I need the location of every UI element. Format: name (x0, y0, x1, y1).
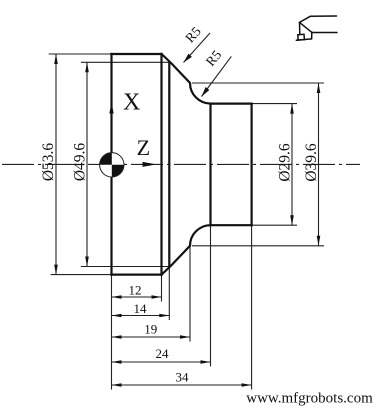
dimension line 12 (112, 296, 162, 298)
X axis arrowhead (109, 103, 113, 114)
arrow Ø53.6 top (54, 54, 58, 64)
tool nose left edge (299, 22, 301, 34)
flange top edge Ø53.6 (112, 53, 162, 55)
svg-text:19: 19 (144, 322, 157, 337)
extension line x=111.5 (z0) below part (111, 275, 113, 390)
z24 tangent line (209, 104, 211, 226)
arrow 24 right (201, 360, 211, 364)
svg-text:24: 24 (156, 346, 170, 361)
svg-text:Ø39.6: Ø39.6 (303, 143, 320, 182)
arrow Ø49.6 bottom (85, 257, 89, 267)
insert square (298, 34, 305, 40)
turning tool icon (296, 16, 337, 40)
part outline (112, 54, 252, 275)
extension line x=161.5 (z12) (161, 275, 163, 302)
arrow R5 leader 1 (184, 54, 192, 63)
tool shank top edge (300, 16, 337, 22)
right end face (251, 104, 253, 226)
arrow 19 right (180, 335, 190, 339)
svg-text:R5: R5 (203, 47, 225, 69)
z14 tangent line (168, 62, 170, 266)
extension line Ø53.6 top (49, 53, 112, 55)
cylinder Ø29.6 top edge (211, 102, 252, 104)
extension line Ø49.6 bottom (81, 266, 169, 268)
dimension line Ø53.6 (55, 54, 57, 275)
dimension line Ø39.6 (318, 83, 320, 246)
extension line x=210.5 (z24) (210, 225, 212, 366)
extension line Ø39.6 top (192, 82, 324, 84)
dimension line 19 (112, 336, 191, 338)
svg-text:Z: Z (137, 135, 150, 160)
svg-text:R5: R5 (182, 24, 204, 46)
svg-text:Ø49.6: Ø49.6 (72, 143, 89, 182)
arrow 12 right (152, 295, 162, 299)
arrow R5 leader 2 (202, 87, 210, 97)
top profile: convex R5, taper, concave R5 (162, 54, 211, 104)
extension line x=169.3 (z14) (168, 267, 170, 321)
svg-text:Ø53.6: Ø53.6 (40, 143, 57, 182)
dimension line 34 (112, 384, 252, 386)
arrow 12 left (112, 295, 122, 299)
centerline (part axis, dash-dot) (2, 163, 360, 165)
tool nose bottom edge (296, 39, 311, 40)
arrow Ø39.6 top (317, 83, 321, 93)
svg-text:Ø29.6: Ø29.6 (277, 143, 294, 182)
svg-text:14: 14 (134, 301, 148, 316)
arrow Ø53.6 bottom (54, 265, 58, 275)
origin symbol (workpiece zero) (100, 153, 124, 177)
svg-text:X: X (123, 90, 140, 116)
arrow 19 left (112, 335, 122, 339)
arrow Ø39.6 bottom (317, 236, 321, 246)
dimension line 14 (112, 315, 170, 317)
tool cutting face diagonal (300, 22, 312, 32)
arrow 34 left (112, 383, 122, 387)
z12 face line (160, 54, 162, 275)
extension line Ø29.6 bottom (252, 224, 297, 226)
dimension line 24 (112, 361, 211, 363)
extension line Ø49.6 top (81, 61, 169, 63)
left face (also X axis line) (110, 54, 112, 275)
svg-text:34: 34 (176, 370, 190, 385)
svg-text:www.mfgrobots.com: www.mfgrobots.com (246, 391, 373, 407)
arrow 34 right (242, 383, 252, 387)
leader line R5 (concave fillet) (202, 56, 232, 96)
tool shank bottom edge (312, 32, 337, 34)
arrow Ø49.6 top (85, 62, 89, 72)
extension line Ø39.6 bottom (192, 245, 324, 247)
extension line x=251.6 (z34) (251, 225, 253, 389)
leader line R5 (convex fillet) (184, 33, 211, 63)
Z axis arrowhead (143, 162, 157, 167)
extension line Ø53.6 bottom (51, 274, 112, 276)
dimension line Ø29.6 (291, 104, 293, 226)
arrow Ø29.6 top (290, 104, 294, 114)
cylinder Ø29.6 bottom edge (211, 224, 252, 226)
tool nose right edge (311, 32, 313, 39)
extension line x=190 (z19) (189, 246, 191, 342)
bottom profile: convex R5, taper, concave R5 (162, 225, 211, 274)
arrow 24 left (112, 360, 122, 364)
dimension line Ø49.6 (86, 62, 88, 266)
extension line Ø29.6 top (252, 103, 297, 105)
flange bottom edge (112, 274, 162, 276)
arrow 14 right (159, 314, 169, 318)
arrow 14 left (112, 314, 122, 318)
svg-text:12: 12 (129, 283, 142, 298)
arrow Ø29.6 bottom (290, 215, 294, 225)
